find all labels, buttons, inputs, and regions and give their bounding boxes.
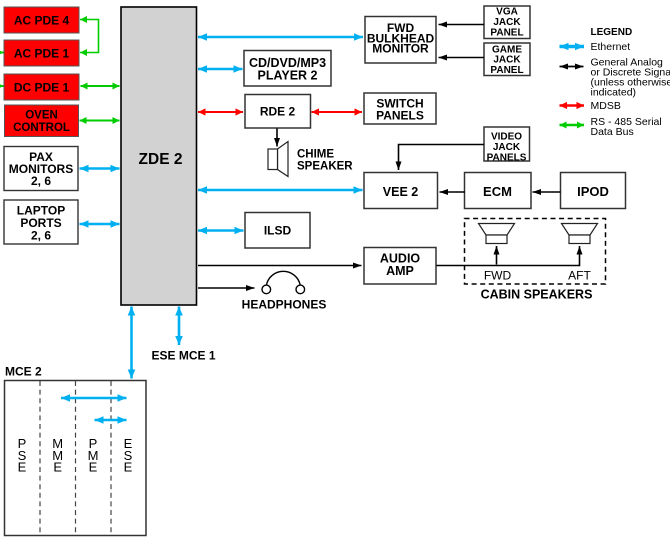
svg-text:2, 6: 2, 6 [31,174,51,188]
svg-text:AFT: AFT [568,269,591,283]
svg-text:JACK: JACK [493,142,521,153]
svg-text:PANELS: PANELS [376,109,424,123]
svg-text:HEADPHONES: HEADPHONES [242,298,327,312]
svg-text:indicated): indicated) [591,86,637,98]
svg-text:LEGEND: LEGEND [591,27,633,38]
svg-text:CABIN SPEAKERS: CABIN SPEAKERS [481,288,593,302]
svg-text:VIDEO: VIDEO [491,131,522,142]
svg-text:DC PDE 1: DC PDE 1 [14,81,70,95]
svg-text:PANEL: PANEL [490,65,523,76]
svg-text:ECM: ECM [483,184,512,199]
svg-text:VEE 2: VEE 2 [383,185,418,199]
svg-text:AC PDE 4: AC PDE 4 [14,14,70,28]
svg-text:2, 6: 2, 6 [31,229,51,243]
svg-text:PANEL: PANEL [490,27,523,38]
svg-text:ESE MCE 1: ESE MCE 1 [152,349,216,363]
svg-text:SPEAKER: SPEAKER [297,160,353,172]
svg-text:FWD: FWD [484,269,512,283]
svg-text:ZDE 2: ZDE 2 [139,151,183,168]
svg-text:Data Bus: Data Bus [591,126,634,138]
svg-text:OVEN: OVEN [25,110,58,122]
svg-text:MONITOR: MONITOR [372,42,429,56]
svg-text:AC PDE 1: AC PDE 1 [14,47,70,61]
svg-text:CHIME: CHIME [297,149,334,161]
svg-text:CONTROL: CONTROL [13,122,70,134]
svg-text:MCE 2: MCE 2 [5,365,42,379]
svg-text:IPOD: IPOD [577,184,609,199]
svg-text:MDSB: MDSB [591,100,621,112]
svg-text:AMP: AMP [386,264,414,278]
svg-text:Ethernet: Ethernet [591,41,631,53]
svg-text:RDE 2: RDE 2 [260,105,296,119]
svg-text:E: E [53,460,62,475]
svg-text:PANELS: PANELS [487,152,527,163]
svg-text:E: E [124,460,133,475]
svg-text:E: E [89,460,98,475]
svg-text:PLAYER 2: PLAYER 2 [258,69,318,83]
svg-text:ILSD: ILSD [264,224,292,238]
svg-text:E: E [18,460,27,475]
